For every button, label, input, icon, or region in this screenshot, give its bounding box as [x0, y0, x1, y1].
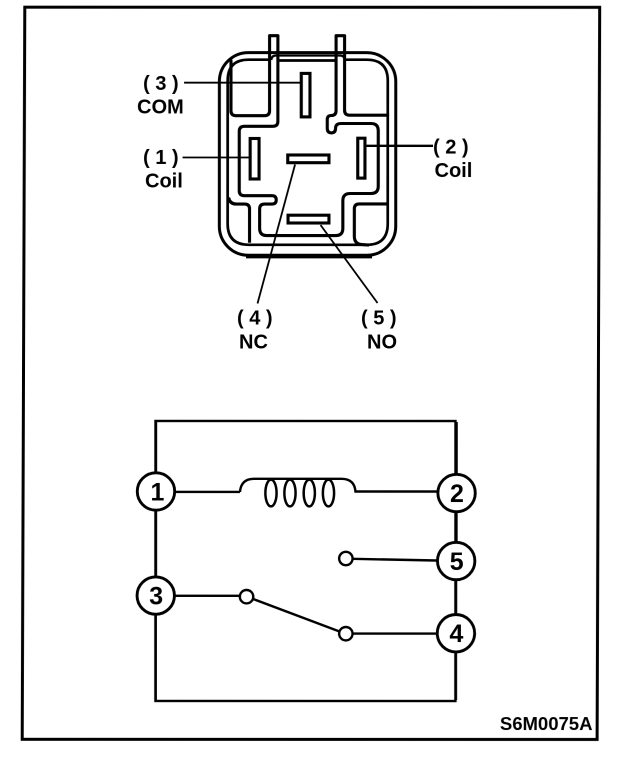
wire NC contact to terminal 4: [353, 632, 438, 634]
top channel wall hugging outer edge: [271, 55, 345, 60]
svg-text:5: 5: [450, 548, 464, 576]
inner top wall between tabs: [278, 59, 336, 62]
tab channels and inner keying contour: [231, 36, 388, 236]
wire terminal 5 to terminal 4: [455, 580, 457, 615]
svg-text:( 3 ): ( 3 ): [143, 73, 179, 95]
pin 4 slot (NC): [288, 155, 329, 163]
leader line (3): [184, 82, 302, 84]
wire terminal 1 to top-left corner: [155, 422, 157, 473]
svg-text:3: 3: [149, 583, 163, 611]
leader line (2): [366, 145, 433, 147]
left lower keying arm (from inner wall to T stem): [229, 197, 250, 242]
pivot contact circle a: [240, 590, 253, 603]
contact circle c (NO): [339, 552, 352, 565]
svg-text:NO: NO: [367, 332, 397, 354]
coil loop 4: [323, 480, 334, 507]
svg-text:COM: COM: [137, 96, 184, 118]
coil loop 1: [265, 480, 276, 507]
relay body bottom edge thickening: [246, 255, 372, 258]
leader line (4): [258, 164, 296, 303]
switch blade: [253, 599, 340, 632]
svg-text:( 4 ): ( 4 ): [237, 307, 273, 329]
right lower pocket contour: [354, 204, 387, 245]
coil loop 3: [304, 480, 315, 507]
wire terminal 3 to pivot contact: [174, 595, 239, 597]
wire terminal 2 to terminal 5: [455, 512, 457, 543]
wire terminal 3 to bottom-left corner: [155, 614, 157, 700]
wire terminal 1 to coil L1: [175, 491, 240, 493]
relay connector outer body: [219, 53, 395, 256]
wire terminal 4 to bottom-right corner: [455, 652, 457, 700]
terminal circle 3: [137, 577, 174, 614]
svg-text:1: 1: [150, 478, 164, 506]
svg-text:NC: NC: [239, 331, 268, 353]
pin 1 slot (Coil): [250, 138, 259, 179]
wire terminal 1 to terminal 3: [155, 510, 157, 577]
wire terminal 2 to top-right corner: [455, 422, 457, 474]
terminal circle 4: [437, 615, 474, 652]
contact circle b (NC): [339, 627, 352, 640]
pin 3 slot (COM): [301, 73, 310, 117]
pin 5 slot (NO): [288, 215, 329, 223]
svg-text:Coil: Coil: [145, 170, 183, 192]
pin 2 slot (Coil): [358, 138, 365, 178]
svg-text:Coil: Coil: [435, 160, 473, 182]
svg-text:( 5 ): ( 5 ): [361, 308, 397, 330]
terminal circle 2: [438, 474, 475, 511]
terminal circle 1: [137, 473, 174, 510]
svg-text:( 2 ): ( 2 ): [433, 137, 469, 159]
svg-text:S6M0075A: S6M0075A: [500, 713, 593, 734]
leader line (1): [183, 156, 251, 158]
coil loop 2: [284, 480, 295, 507]
svg-text:4: 4: [449, 620, 463, 648]
svg-text:2: 2: [450, 480, 464, 508]
svg-text:( 1 ): ( 1 ): [143, 147, 179, 169]
leader line (5): [321, 225, 378, 303]
wire NO contact to terminal 5: [353, 559, 438, 561]
relay connector inner outline: [228, 60, 388, 245]
terminal circle 5: [437, 542, 474, 579]
coil L1 winding top arcs and end wires to terminal 2: [240, 479, 438, 492]
schematic box: [155, 421, 455, 701]
